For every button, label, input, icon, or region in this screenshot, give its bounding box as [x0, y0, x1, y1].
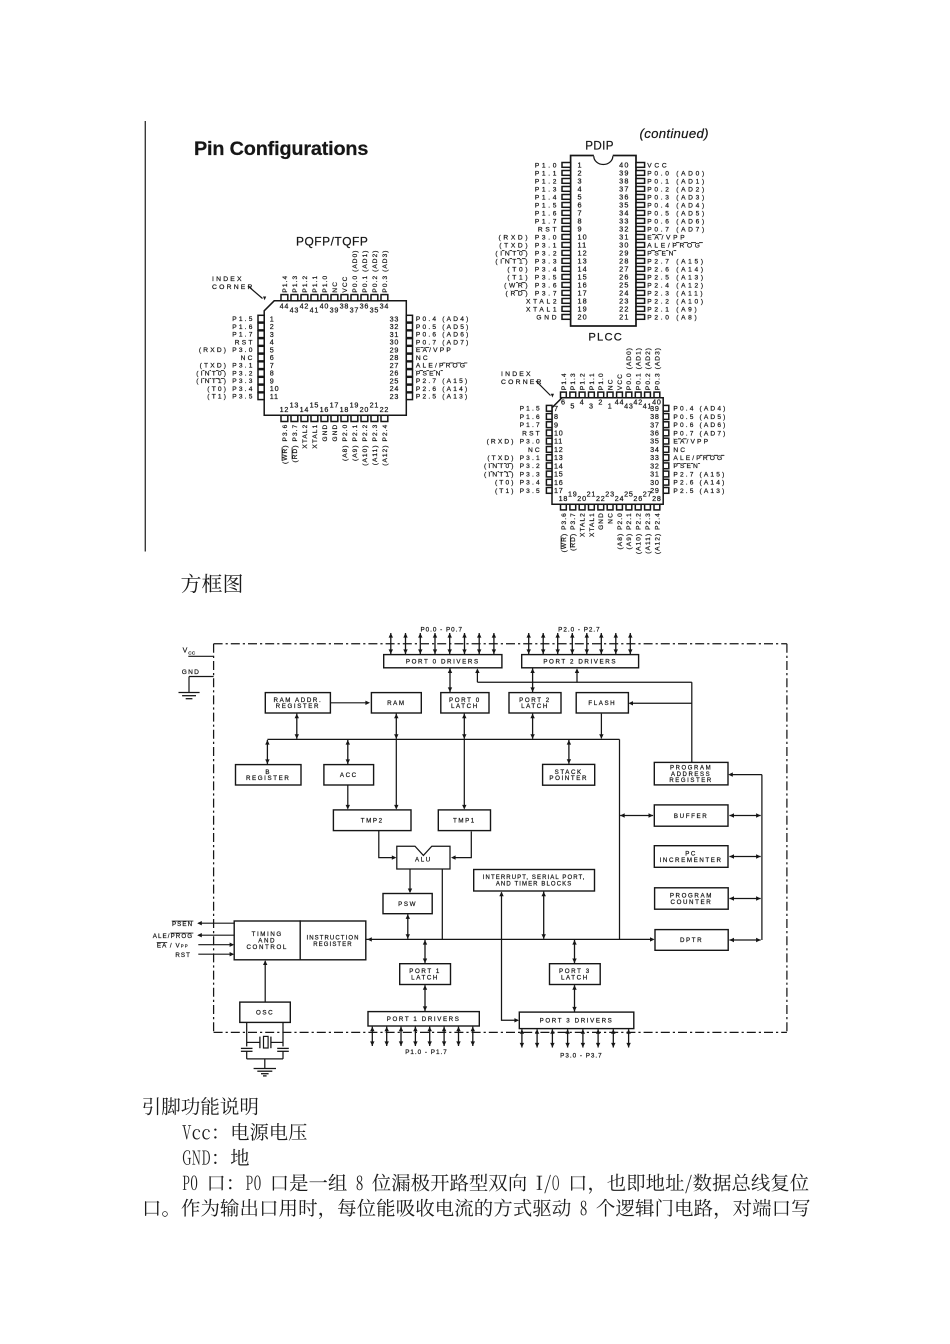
- svg-text:(RD) P3.7: (RD) P3.7: [506, 290, 560, 297]
- svg-text:RST: RST: [175, 952, 191, 959]
- svg-text:44: 44: [280, 301, 290, 310]
- svg-text:PROGRAM: PROGRAM: [670, 766, 712, 772]
- svg-text:LATCH: LATCH: [451, 703, 479, 710]
- svg-text:P1.2: P1.2: [580, 372, 587, 390]
- svg-text:INDEX: INDEX: [501, 371, 533, 378]
- svg-text:18: 18: [340, 405, 350, 414]
- svg-text:44: 44: [615, 398, 625, 407]
- svg-text:13: 13: [290, 401, 300, 410]
- svg-text:NC: NC: [673, 447, 687, 454]
- svg-text:P1.2: P1.2: [302, 275, 309, 293]
- svg-text:P1.5: P1.5: [232, 316, 254, 323]
- svg-text:P1.0: P1.0: [322, 275, 329, 293]
- svg-text:VCC: VCC: [342, 276, 349, 293]
- svg-text:XTAL1: XTAL1: [312, 424, 319, 449]
- svg-text:P1.3: P1.3: [570, 372, 577, 390]
- svg-text:23: 23: [390, 392, 400, 401]
- svg-text:21: 21: [619, 313, 629, 322]
- svg-text:INDEX: INDEX: [212, 276, 244, 283]
- svg-text:P0.3 (AD3): P0.3 (AD3): [647, 194, 707, 201]
- svg-text:21: 21: [587, 490, 597, 499]
- svg-text:P0.0 (AD0): P0.0 (AD0): [647, 170, 707, 177]
- svg-text:(T1) P3.5: (T1) P3.5: [207, 394, 254, 401]
- svg-text:26: 26: [633, 494, 643, 503]
- svg-text:V: V: [183, 648, 188, 655]
- svg-text:OSC: OSC: [256, 1010, 274, 1017]
- svg-text:XTAL2: XTAL2: [580, 512, 587, 537]
- svg-text:P0.5 (AD5): P0.5 (AD5): [416, 324, 471, 331]
- svg-text:23: 23: [605, 490, 615, 499]
- svg-text:CORNER: CORNER: [212, 284, 255, 291]
- svg-text:P1.3: P1.3: [535, 186, 559, 193]
- svg-text:39: 39: [330, 306, 340, 315]
- svg-text:6: 6: [561, 398, 566, 407]
- svg-text:REGISTER: REGISTER: [313, 942, 352, 948]
- svg-text:(A12) P2.4: (A12) P2.4: [654, 512, 661, 554]
- svg-text:LATCH: LATCH: [411, 975, 439, 982]
- svg-text:(A11) P2.3: (A11) P2.3: [645, 512, 652, 554]
- svg-text:P0.4 (AD4): P0.4 (AD4): [416, 316, 471, 323]
- svg-text:42: 42: [633, 398, 643, 407]
- svg-text:PORT 3 DRIVERS: PORT 3 DRIVERS: [540, 1018, 614, 1025]
- svg-text:41: 41: [310, 306, 320, 315]
- svg-text:P2.7 (A15): P2.7 (A15): [673, 471, 726, 478]
- svg-text:(continued): (continued): [640, 126, 709, 141]
- svg-text:PORT 1 DRIVERS: PORT 1 DRIVERS: [387, 1016, 461, 1023]
- svg-text:NC: NC: [332, 281, 339, 293]
- svg-text:Pin Configurations: Pin Configurations: [194, 138, 368, 160]
- svg-text:PSEN: PSEN: [673, 463, 700, 470]
- svg-text:RST: RST: [522, 430, 542, 437]
- svg-text:P2.7 (A15): P2.7 (A15): [416, 378, 470, 385]
- svg-text:(A9) P2.1: (A9) P2.1: [352, 424, 359, 461]
- svg-text:12: 12: [280, 405, 290, 414]
- svg-text:ALE/PROG: ALE/PROG: [153, 933, 193, 940]
- svg-text:ALE/PROG: ALE/PROG: [673, 455, 724, 462]
- svg-text:P1.4: P1.4: [535, 194, 559, 201]
- svg-text:P0.5 (AD5): P0.5 (AD5): [647, 210, 707, 217]
- svg-text:(A9) P2.1: (A9) P2.1: [626, 512, 633, 549]
- svg-text:INTERRUPT, SERIAL PORT,: INTERRUPT, SERIAL PORT,: [483, 875, 586, 881]
- svg-text:25: 25: [624, 490, 634, 499]
- svg-text:(T0) P3.4: (T0) P3.4: [507, 266, 559, 273]
- svg-text:P1.7: P1.7: [535, 218, 559, 225]
- svg-text:P1.1: P1.1: [312, 275, 319, 293]
- svg-text:P0.2 (AD2): P0.2 (AD2): [645, 347, 652, 390]
- svg-text:(INT0) P3.2: (INT0) P3.2: [484, 463, 542, 470]
- svg-text:AND TIMER BLOCKS: AND TIMER BLOCKS: [496, 882, 573, 888]
- svg-text:PSEN: PSEN: [647, 250, 676, 257]
- svg-text:(A10) P2.2: (A10) P2.2: [362, 424, 369, 466]
- svg-text:GND: GND: [182, 669, 200, 676]
- svg-text:PSEN: PSEN: [416, 370, 443, 377]
- svg-text:(T0) P3.4: (T0) P3.4: [207, 386, 254, 393]
- svg-text:P2.3 (A11): P2.3 (A11): [647, 290, 705, 297]
- svg-text:36: 36: [360, 301, 370, 310]
- svg-text:LATCH: LATCH: [561, 975, 589, 982]
- svg-text:(A11) P2.3: (A11) P2.3: [372, 424, 379, 466]
- svg-text:(TXD) P3.1: (TXD) P3.1: [499, 242, 559, 249]
- svg-text:16: 16: [320, 405, 330, 414]
- svg-text:RAM: RAM: [387, 700, 406, 707]
- svg-text:(INT0) P3.2: (INT0) P3.2: [196, 370, 254, 377]
- svg-text:INCREMENTER: INCREMENTER: [660, 857, 723, 864]
- svg-text:18: 18: [559, 494, 569, 503]
- svg-text:3: 3: [589, 402, 594, 411]
- svg-text:VCC: VCC: [617, 373, 624, 390]
- svg-text:P1.7: P1.7: [232, 332, 254, 339]
- svg-text:(TXD) P3.1: (TXD) P3.1: [487, 455, 541, 462]
- svg-text:BUFFER: BUFFER: [674, 813, 708, 820]
- svg-text:P0.2 (AD2): P0.2 (AD2): [372, 249, 379, 292]
- svg-text:(RXD) P3.0: (RXD) P3.0: [199, 347, 255, 354]
- svg-text:P1.6: P1.6: [520, 414, 542, 421]
- svg-text:P2.6 (A14): P2.6 (A14): [673, 480, 726, 487]
- svg-text:P2.5 (A13): P2.5 (A13): [647, 274, 706, 281]
- svg-text:TMP1: TMP1: [453, 818, 476, 825]
- svg-text:GND: GND: [536, 314, 559, 321]
- svg-text:EA/VPP: EA/VPP: [673, 439, 710, 446]
- svg-text:(TXD) P3.1: (TXD) P3.1: [200, 363, 255, 370]
- svg-text:TMP2: TMP2: [361, 818, 384, 825]
- svg-text:5: 5: [570, 402, 575, 411]
- svg-text:P2.7 (A15): P2.7 (A15): [647, 258, 706, 265]
- svg-text:ACC: ACC: [340, 772, 358, 779]
- svg-text:P1.6: P1.6: [232, 324, 254, 331]
- svg-text:(INT1) P3.3: (INT1) P3.3: [196, 378, 254, 385]
- svg-text:EA/VPP: EA/VPP: [647, 234, 687, 241]
- svg-text:4: 4: [580, 398, 585, 407]
- svg-text:PORT 2 DRIVERS: PORT 2 DRIVERS: [543, 658, 617, 665]
- svg-text:P0.0 - P0.7: P0.0 - P0.7: [420, 626, 463, 633]
- svg-text:P2.0 - P2.7: P2.0 - P2.7: [558, 626, 601, 633]
- svg-text:P1.5: P1.5: [535, 202, 559, 209]
- svg-text:2: 2: [598, 398, 603, 407]
- svg-text:14: 14: [300, 405, 310, 414]
- svg-text:P0.0 (AD0): P0.0 (AD0): [626, 347, 633, 390]
- svg-text:P0.4 (AD4): P0.4 (AD4): [647, 202, 707, 209]
- svg-text:XTAL1: XTAL1: [526, 306, 559, 313]
- svg-text:NC: NC: [608, 512, 615, 524]
- svg-text:POINTER: POINTER: [549, 775, 588, 782]
- svg-text:22: 22: [380, 405, 390, 414]
- svg-text:(WR) P3.6: (WR) P3.6: [504, 282, 559, 289]
- svg-text:37: 37: [350, 306, 360, 315]
- svg-text:P1.4: P1.4: [561, 372, 568, 390]
- svg-text:20: 20: [360, 405, 370, 414]
- svg-text:(RXD) P3.0: (RXD) P3.0: [487, 439, 542, 446]
- svg-text:42: 42: [300, 301, 310, 310]
- svg-text:PDIP: PDIP: [585, 140, 614, 153]
- svg-text:(RXD) P3.0: (RXD) P3.0: [498, 234, 559, 241]
- svg-text:RST: RST: [235, 339, 255, 346]
- svg-text:40: 40: [652, 398, 662, 407]
- svg-text:LATCH: LATCH: [521, 703, 549, 710]
- svg-text:P1.0 - P1.7: P1.0 - P1.7: [405, 1049, 448, 1056]
- svg-text:P2.6 (A14): P2.6 (A14): [647, 266, 706, 273]
- svg-text:P0.6 (AD6): P0.6 (AD6): [647, 218, 707, 225]
- svg-text:19: 19: [568, 490, 578, 499]
- svg-text:1: 1: [608, 402, 613, 411]
- svg-text:P1.4: P1.4: [282, 275, 289, 293]
- svg-text:35: 35: [370, 306, 380, 315]
- svg-text:NC: NC: [608, 379, 615, 391]
- svg-text:(RD) P3.7: (RD) P3.7: [570, 512, 577, 551]
- svg-text:INSTRUCTION: INSTRUCTION: [306, 935, 359, 941]
- svg-text:40: 40: [320, 301, 330, 310]
- svg-text:43: 43: [624, 402, 634, 411]
- svg-text:P2.4 (A12): P2.4 (A12): [647, 282, 706, 289]
- svg-text:P2.6 (A14): P2.6 (A14): [416, 386, 470, 393]
- svg-text:ALE/PROG: ALE/PROG: [416, 363, 467, 370]
- svg-text:ADDRESS: ADDRESS: [671, 772, 711, 778]
- svg-text:(A8) P2.0: (A8) P2.0: [617, 512, 624, 549]
- svg-text:PSW: PSW: [398, 901, 417, 908]
- svg-text:P0.0 (AD0): P0.0 (AD0): [352, 249, 359, 292]
- svg-text:41: 41: [643, 402, 653, 411]
- svg-text:P0.1 (AD1): P0.1 (AD1): [636, 347, 643, 390]
- svg-text:P0.7 (AD7): P0.7 (AD7): [416, 339, 471, 346]
- svg-text:ALU: ALU: [415, 856, 432, 863]
- svg-text:CC: CC: [188, 650, 196, 655]
- svg-text:15: 15: [310, 401, 320, 410]
- svg-text:P0.1 (AD1): P0.1 (AD1): [362, 249, 369, 292]
- svg-text:REGISTER: REGISTER: [276, 703, 320, 710]
- svg-text:P1.2: P1.2: [535, 178, 559, 185]
- svg-text:20: 20: [578, 313, 588, 322]
- svg-text:(INT1) P3.3: (INT1) P3.3: [495, 258, 559, 265]
- svg-text:DPTR: DPTR: [680, 937, 703, 944]
- svg-text:P1.6: P1.6: [535, 210, 559, 217]
- svg-text:PLCC: PLCC: [588, 331, 623, 343]
- svg-text:(T0) P3.4: (T0) P3.4: [495, 480, 542, 487]
- svg-text:XTAL2: XTAL2: [526, 298, 559, 305]
- svg-text:(INT1) P3.3: (INT1) P3.3: [484, 471, 542, 478]
- svg-text:P3.0 - P3.7: P3.0 - P3.7: [560, 1052, 603, 1059]
- svg-text:(INT0) P3.2: (INT0) P3.2: [495, 250, 559, 257]
- svg-text:GND: GND: [332, 424, 339, 442]
- svg-text:P1.5: P1.5: [520, 406, 542, 413]
- svg-text:XTAL1: XTAL1: [589, 512, 596, 537]
- svg-text:(WR) P3.6: (WR) P3.6: [561, 512, 568, 552]
- svg-text:P1.7: P1.7: [520, 422, 542, 429]
- svg-text:P0.7 (AD7): P0.7 (AD7): [647, 226, 707, 233]
- svg-text:P1.3: P1.3: [292, 275, 299, 293]
- svg-text:ALE/PROG: ALE/PROG: [647, 242, 702, 249]
- svg-text:17: 17: [554, 486, 564, 495]
- svg-text:P0.5 (AD5): P0.5 (AD5): [673, 414, 727, 421]
- svg-text:NC: NC: [241, 355, 255, 362]
- svg-text:P0.1 (AD1): P0.1 (AD1): [647, 178, 707, 185]
- svg-text:28: 28: [652, 494, 662, 503]
- svg-text:P0.6 (AD6): P0.6 (AD6): [673, 422, 727, 429]
- svg-text:20: 20: [577, 494, 587, 503]
- svg-text:P0.7 (AD7): P0.7 (AD7): [673, 430, 727, 437]
- svg-text:GND: GND: [598, 512, 605, 530]
- svg-text:RST: RST: [538, 226, 559, 233]
- svg-text:34: 34: [380, 301, 390, 310]
- svg-text:(A10) P2.2: (A10) P2.2: [636, 512, 643, 554]
- svg-text:REGISTER: REGISTER: [669, 778, 712, 784]
- svg-text:(T1) P3.5: (T1) P3.5: [507, 274, 559, 281]
- svg-text:NC: NC: [528, 447, 542, 454]
- svg-text:P0.4 (AD4): P0.4 (AD4): [673, 406, 727, 413]
- svg-text:P0.2 (AD2): P0.2 (AD2): [647, 186, 707, 193]
- svg-text:XTAL2: XTAL2: [302, 424, 309, 449]
- svg-text:P2.5 (A13): P2.5 (A13): [673, 488, 726, 495]
- svg-text:11: 11: [270, 392, 279, 401]
- svg-text:19: 19: [350, 401, 360, 410]
- svg-text:P1.0: P1.0: [535, 162, 559, 169]
- svg-text:24: 24: [615, 494, 625, 503]
- svg-text:GND: GND: [322, 424, 329, 442]
- svg-text:CONTROL: CONTROL: [246, 944, 287, 951]
- svg-text:43: 43: [290, 306, 300, 315]
- svg-text:P1.1: P1.1: [535, 170, 559, 177]
- svg-text:P2.5 (A13): P2.5 (A13): [416, 394, 470, 401]
- svg-text:21: 21: [370, 401, 380, 410]
- svg-text:P0.3 (AD3): P0.3 (AD3): [654, 347, 661, 390]
- svg-text:NC: NC: [416, 355, 430, 362]
- svg-text:P2.0 (A8): P2.0 (A8): [647, 314, 699, 321]
- svg-text:P0.6 (AD6): P0.6 (AD6): [416, 332, 471, 339]
- svg-text:FLASH: FLASH: [588, 700, 616, 707]
- svg-text:REGISTER: REGISTER: [246, 775, 290, 782]
- svg-text:P1.1: P1.1: [589, 372, 596, 390]
- svg-text:29: 29: [650, 486, 660, 495]
- svg-text:P2.1 (A9): P2.1 (A9): [647, 306, 699, 313]
- svg-text:P0.3 (AD3): P0.3 (AD3): [382, 249, 389, 292]
- svg-text:17: 17: [330, 401, 340, 410]
- svg-text:PORT 0 DRIVERS: PORT 0 DRIVERS: [406, 658, 480, 665]
- svg-text:EA/VPP: EA/VPP: [416, 347, 453, 354]
- svg-text:COUNTER: COUNTER: [671, 899, 713, 906]
- svg-text:(A8) P2.0: (A8) P2.0: [342, 424, 349, 461]
- svg-text:EA / VPP: EA / VPP: [157, 942, 189, 949]
- svg-text:P2.2 (A10): P2.2 (A10): [647, 298, 706, 305]
- svg-text:(RD) P3.7: (RD) P3.7: [292, 424, 299, 463]
- svg-text:(T1) P3.5: (T1) P3.5: [495, 488, 542, 495]
- svg-text:(WR) P3.6: (WR) P3.6: [282, 424, 289, 464]
- svg-text:38: 38: [340, 301, 350, 310]
- svg-text:PSEN: PSEN: [172, 921, 193, 928]
- svg-text:22: 22: [596, 494, 606, 503]
- svg-text:(A12) P2.4: (A12) P2.4: [382, 424, 389, 466]
- svg-text:VCC: VCC: [647, 162, 669, 169]
- svg-text:P1.0: P1.0: [598, 372, 605, 390]
- svg-text:PQFP/TQFP: PQFP/TQFP: [296, 235, 368, 249]
